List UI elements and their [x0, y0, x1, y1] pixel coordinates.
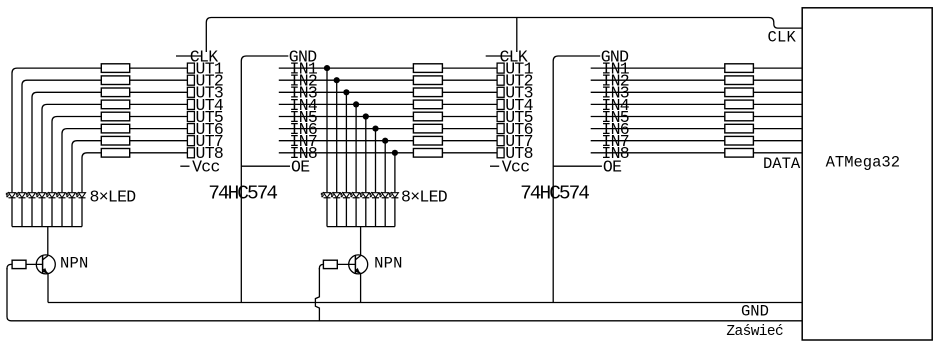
svg-text:Vcc: Vcc: [192, 158, 220, 177]
svg-text:74HC574: 74HC574: [520, 183, 589, 205]
svg-text:NPN: NPN: [60, 255, 89, 273]
svg-text:Zaświeć: Zaświeć: [726, 324, 783, 340]
svg-text:8×LED: 8×LED: [90, 188, 137, 207]
svg-text:IN8: IN8: [601, 144, 629, 163]
svg-text:IN8: IN8: [290, 144, 318, 163]
svg-text:ATMega32: ATMega32: [826, 154, 900, 172]
svg-text:74HC574: 74HC574: [208, 183, 277, 205]
svg-text:Vcc: Vcc: [502, 158, 530, 177]
svg-text:DATA: DATA: [763, 155, 801, 173]
svg-text:8×LED: 8×LED: [401, 188, 448, 207]
svg-text:CLK: CLK: [767, 29, 796, 47]
svg-text:GND: GND: [741, 303, 769, 321]
svg-text:NPN: NPN: [374, 255, 403, 273]
